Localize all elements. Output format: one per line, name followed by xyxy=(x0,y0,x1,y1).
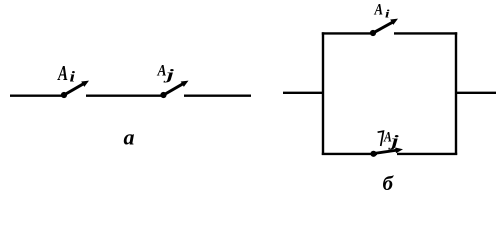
wire: left vertical side of parallel circuit b xyxy=(322,32,324,155)
wire: bottom-right segment of parallel circuit b xyxy=(397,153,457,155)
wire: top-right segment of parallel circuit b xyxy=(394,32,457,34)
wire: left lead of series circuit a xyxy=(10,94,64,96)
svg-text:A: A xyxy=(157,63,167,80)
wire: left lead of parallel circuit b xyxy=(283,92,324,94)
svg-text:A: A xyxy=(383,129,392,145)
switch A_i (parallel circuit, top branch) : arm xyxy=(373,22,393,33)
switch A_i (series circuit) : pivot dot xyxy=(61,92,67,98)
label A_j (series circuit) xyxy=(157,63,176,84)
label A_i (series circuit) xyxy=(57,61,75,86)
svg-text:б: б xyxy=(383,173,395,195)
wire: right vertical side of parallel circuit b xyxy=(455,32,457,155)
svg-text:A: A xyxy=(374,2,383,19)
switch A_i (series circuit) : arrowhead xyxy=(81,81,89,87)
wire: right lead of parallel circuit b xyxy=(456,92,496,94)
switch NOT A_j (parallel circuit, bottom branch) : pivot dot xyxy=(370,151,376,157)
switch A_i (parallel circuit, top branch) : arrowhead xyxy=(390,19,398,25)
switch NOT A_j (parallel circuit, bottom branch) : arm xyxy=(374,150,397,153)
switch A_j (series circuit) : pivot dot xyxy=(160,92,166,98)
svg-text:i: i xyxy=(385,7,390,21)
switch A_i (parallel circuit, top branch) : pivot dot xyxy=(370,30,376,36)
wire: middle segment of series circuit a xyxy=(86,94,164,96)
switch NOT A_j (parallel circuit, bottom branch) : arrowhead xyxy=(395,147,403,153)
wire: top-left segment of parallel circuit b xyxy=(322,32,373,34)
svg-text:а: а xyxy=(124,125,135,150)
switch A_j (series circuit) : arrowhead xyxy=(181,81,189,87)
switch A_i (series circuit) : arm xyxy=(64,84,84,95)
svg-text:i: i xyxy=(70,70,76,86)
svg-text:A: A xyxy=(57,61,68,85)
wire: right lead of series circuit a xyxy=(184,94,251,96)
wire: bottom-left segment of parallel circuit b xyxy=(322,153,377,155)
switch A_j (series circuit) : arm xyxy=(164,84,184,95)
label NOT A_j (parallel circuit, bottom branch) xyxy=(378,129,400,150)
label A_i (parallel circuit, top branch) xyxy=(374,2,391,21)
